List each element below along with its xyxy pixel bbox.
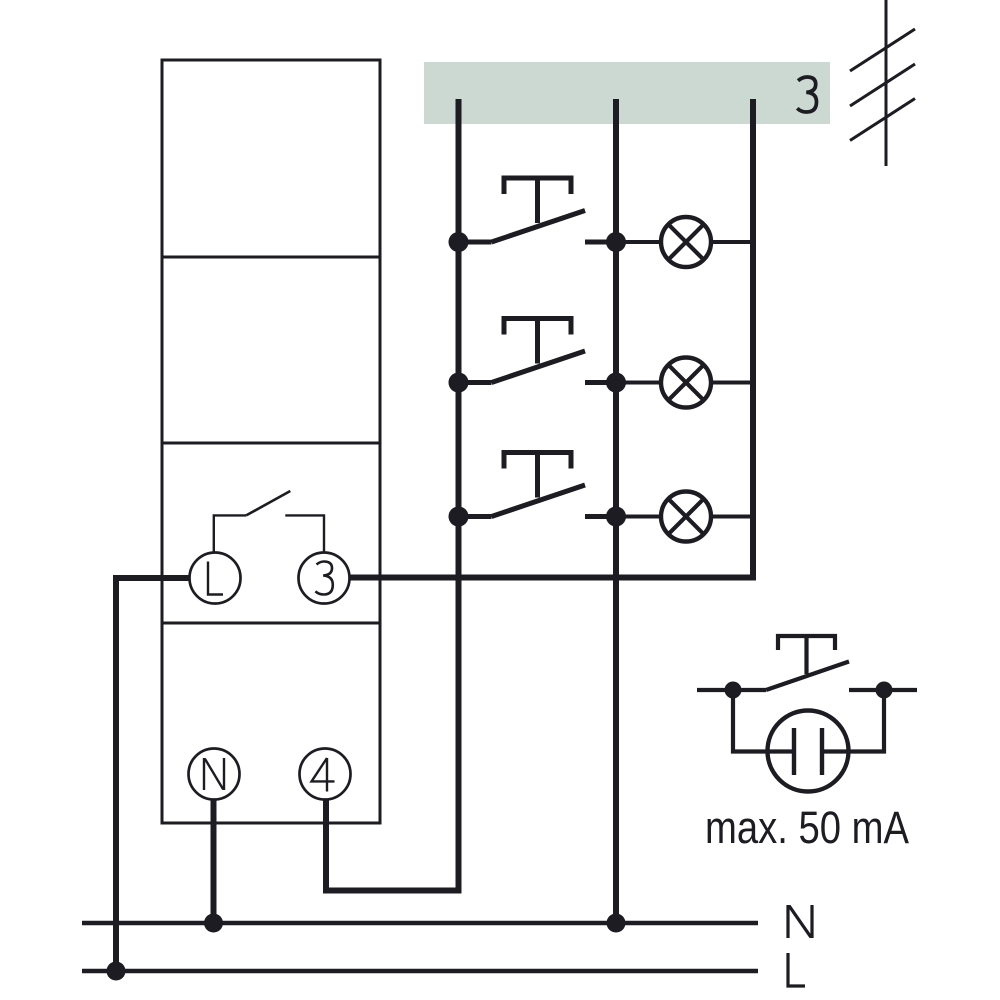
svg-text:max. 50 mA: max. 50 mA	[705, 802, 909, 853]
